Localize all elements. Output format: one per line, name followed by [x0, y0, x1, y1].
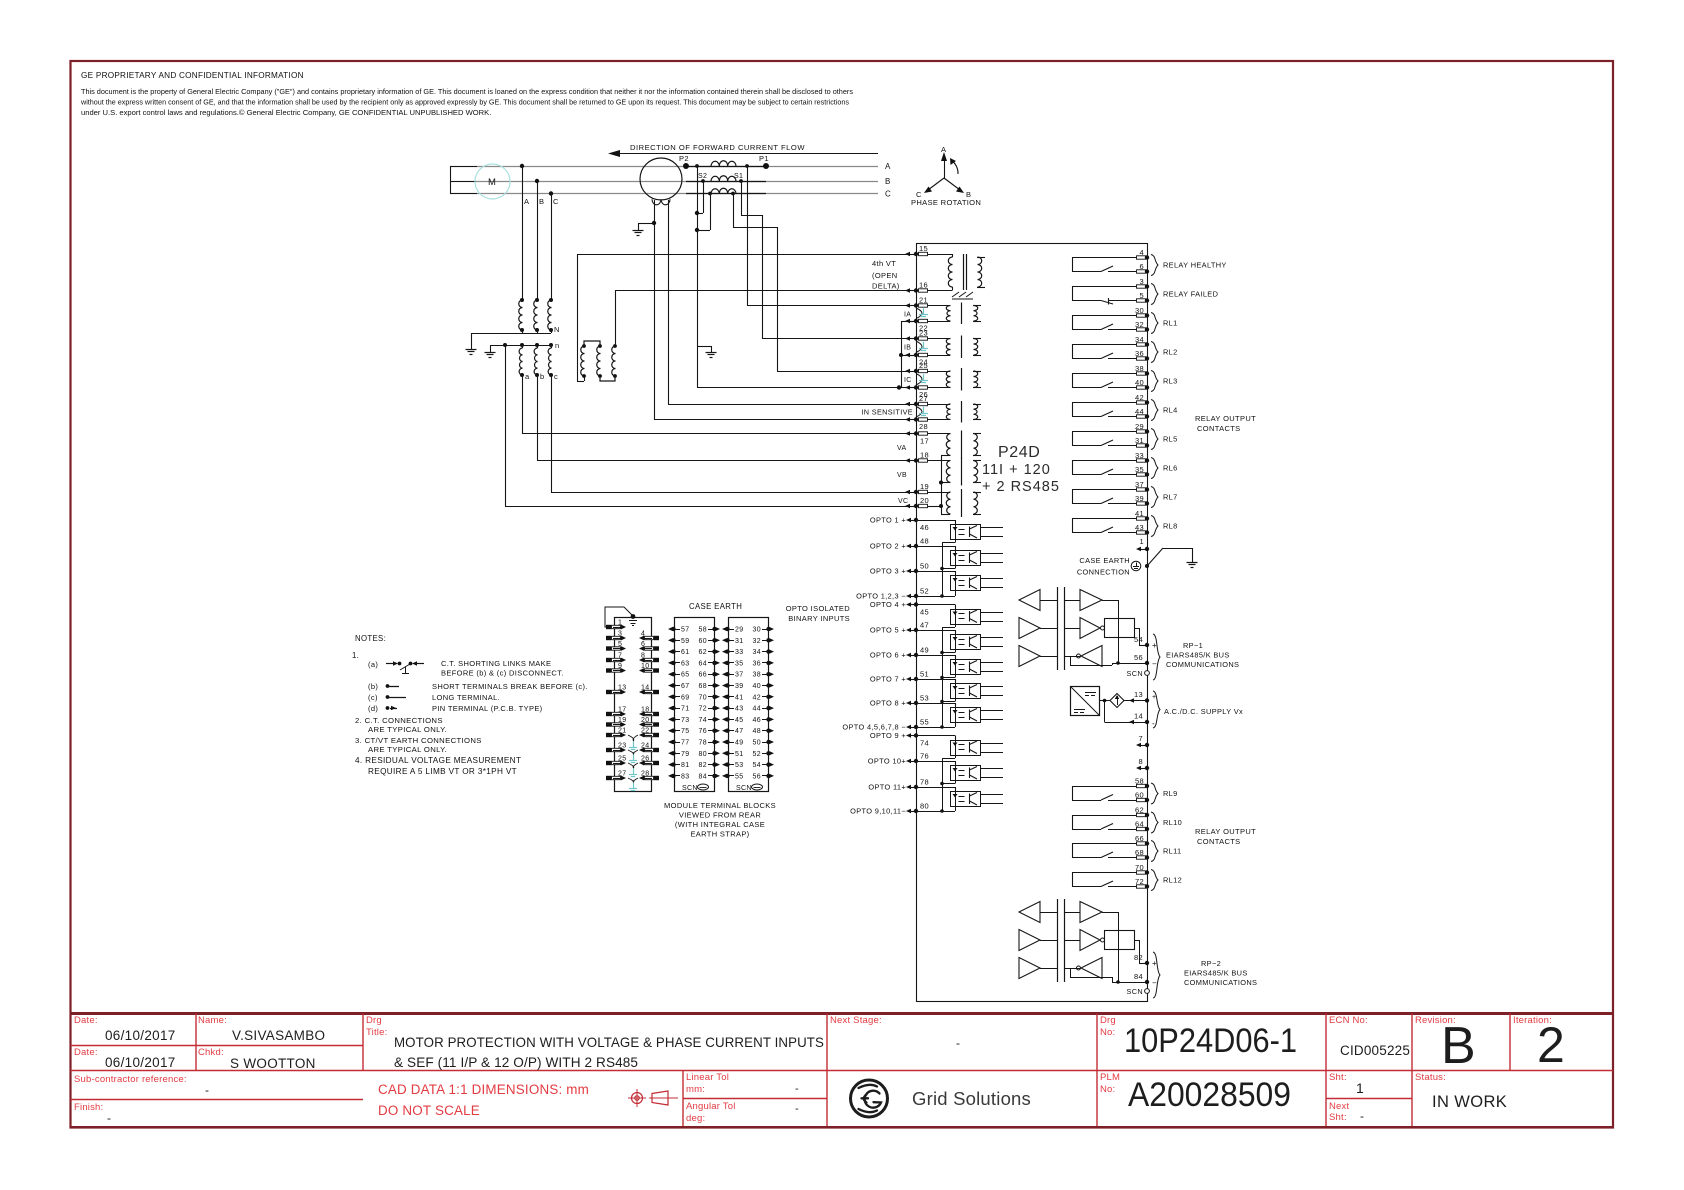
svg-text:M: M [488, 177, 496, 188]
opto input terminal 46 OPTO 1 + [870, 516, 929, 533]
svg-text:8: 8 [1138, 757, 1143, 766]
svg-text:Next Stage:: Next Stage: [830, 1015, 882, 1026]
svg-text:72: 72 [699, 706, 708, 713]
svg-text:OPTO 4 +: OPTO 4 + [870, 600, 906, 609]
svg-text:RELAY OUTPUT: RELAY OUTPUT [1195, 827, 1256, 836]
svg-text:31: 31 [735, 638, 744, 645]
module terminal block 3 (29-56) [722, 618, 774, 793]
svg-text:VIEWED FROM REAR: VIEWED FROM REAR [679, 811, 762, 820]
svg-text:a: a [525, 372, 530, 381]
svg-text:(a): (a) [368, 660, 378, 669]
svg-text:13: 13 [1134, 690, 1143, 699]
relay model text [982, 444, 1060, 495]
opto input terminal 49 OPTO 6 + [870, 646, 929, 660]
svg-text:SHORT TERMINALS BREAK BEFORE (: SHORT TERMINALS BREAK BEFORE (c). [432, 682, 588, 691]
svg-text:(WITH INTEGRAL CASE: (WITH INTEGRAL CASE [675, 820, 765, 829]
svg-text:DIRECTION OF FORWARD CURREN: DIRECTION OF FORWARD CURRENT FLOW [630, 143, 805, 152]
svg-text:ARE TYPICAL ONLY.: ARE TYPICAL ONLY. [368, 725, 447, 734]
svg-text:23: 23 [618, 743, 627, 750]
svg-text:P1: P1 [759, 154, 769, 163]
svg-text:40: 40 [1135, 378, 1144, 387]
svg-text:RL11: RL11 [1163, 847, 1182, 856]
svg-text:47: 47 [735, 728, 744, 735]
svg-text:62: 62 [699, 649, 708, 656]
svg-text:83: 83 [681, 773, 690, 780]
svg-text:53: 53 [735, 762, 744, 769]
svg-text:-: - [107, 1111, 111, 1125]
svg-text:51: 51 [920, 670, 929, 679]
svg-text:BEFORE (b) & (c) DISCONNECT.: BEFORE (b) & (c) DISCONNECT. [441, 669, 564, 678]
svg-text:84: 84 [699, 773, 708, 780]
svg-text:C: C [553, 197, 559, 206]
svg-text:OPTO 10+: OPTO 10+ [868, 757, 906, 766]
svg-text:43: 43 [735, 706, 744, 713]
svg-text:& SEF (11 I/P & 12 O/P) WITH 2: & SEF (11 I/P & 12 O/P) WITH 2 RS485 [394, 1055, 638, 1070]
svg-text:Date:: Date: [74, 1015, 98, 1026]
svg-text:Title:: Title: [366, 1027, 387, 1038]
svg-text:69: 69 [681, 694, 690, 701]
svg-text:10P24D06-1: 10P24D06-1 [1124, 1022, 1297, 1060]
opto input terminal 74 OPTO 9 + [870, 731, 929, 748]
svg-text:49: 49 [735, 740, 744, 747]
opto isolator group 2 [916, 605, 1003, 729]
opto input terminal 80 OPTO 9,10,11− [850, 802, 929, 816]
svg-text:−: − [1152, 979, 1157, 988]
svg-text:This document is the property: This document is the property of General… [81, 87, 853, 96]
relay output contacts label upper [1195, 414, 1256, 433]
relay contact RL9 terminals 58 60 [1072, 777, 1158, 805]
svg-text:SCN: SCN [1127, 987, 1143, 996]
svg-text:OPTO 3 +: OPTO 3 + [870, 567, 906, 576]
svg-text:06/10/2017: 06/10/2017 [105, 1055, 176, 1070]
svg-text:17: 17 [920, 437, 929, 446]
CT input IB terminals 23 24 [904, 329, 981, 367]
svg-text:39: 39 [1135, 494, 1144, 503]
svg-text:GE PROPRIETARY AND CONFIDENTIA: GE PROPRIETARY AND CONFIDENTIAL INFORMAT… [81, 71, 304, 80]
svg-text:13: 13 [618, 685, 627, 692]
svg-text:56: 56 [753, 773, 762, 780]
svg-text:61: 61 [681, 649, 690, 656]
svg-text:27: 27 [618, 771, 627, 778]
svg-text:RL9: RL9 [1163, 789, 1178, 798]
svg-text:52: 52 [920, 587, 929, 596]
svg-text:B: B [885, 177, 891, 186]
svg-text:OPTO 11+: OPTO 11+ [868, 783, 906, 792]
svg-text:24: 24 [641, 743, 650, 750]
svg-text:PLM: PLM [1100, 1072, 1120, 1083]
svg-text:41: 41 [1135, 509, 1144, 518]
svg-text:51: 51 [735, 751, 744, 758]
VT primary wye windings [466, 298, 560, 355]
svg-text:72: 72 [1135, 877, 1144, 886]
svg-text:29: 29 [735, 627, 744, 634]
svg-text:54: 54 [1134, 635, 1143, 644]
module terminal blocks caption [664, 801, 776, 839]
relay contact RL5 terminals 29 31 [1072, 422, 1158, 450]
svg-text:18: 18 [920, 451, 929, 460]
svg-text:Sub-contractor reference:: Sub-contractor reference: [74, 1074, 187, 1085]
svg-text:28: 28 [919, 422, 928, 431]
svg-text:Grid Solutions: Grid Solutions [912, 1088, 1031, 1109]
svg-text:(OPEN: (OPEN [872, 271, 898, 280]
svg-text:VA: VA [897, 445, 907, 452]
svg-text:CONNECTION: CONNECTION [1077, 568, 1130, 577]
svg-text:46: 46 [753, 717, 762, 724]
svg-text:27: 27 [919, 394, 928, 403]
svg-text:IN WORK: IN WORK [1432, 1093, 1507, 1111]
svg-text:REQUIRE A 5 LIMB VT OR 3: REQUIRE A 5 LIMB VT OR 3*1PH VT [368, 767, 517, 776]
svg-text:64: 64 [1135, 820, 1144, 829]
VT secondary wye windings a b c n [485, 341, 560, 381]
module terminal blocks heading CASE EARTH [689, 602, 742, 611]
svg-text:1: 1 [1356, 1080, 1364, 1096]
svg-text:OPTO 6 +: OPTO 6 + [870, 651, 906, 660]
title block grid [71, 1014, 1614, 1128]
svg-text:38: 38 [1135, 364, 1144, 373]
svg-text:42: 42 [753, 694, 762, 701]
svg-text:84: 84 [1134, 972, 1143, 981]
svg-text:RL1: RL1 [1163, 319, 1178, 328]
svg-text:DELTA): DELTA) [872, 282, 900, 291]
svg-text:49: 49 [920, 646, 929, 655]
svg-text:P2: P2 [679, 154, 689, 163]
svg-text:42: 42 [1135, 393, 1144, 402]
motor M [450, 164, 510, 199]
svg-text:BINARY INPUTS: BINARY INPUTS [788, 614, 850, 623]
VT secondary wires to relay terminals 17-20 [505, 345, 916, 507]
svg-text:55: 55 [920, 718, 929, 727]
svg-text:9: 9 [618, 663, 622, 670]
svg-text:19: 19 [618, 717, 627, 724]
svg-text:64: 64 [699, 660, 708, 667]
relay contact RELAY FAILED terminals 3 5 [1072, 277, 1158, 305]
svg-text:67: 67 [681, 683, 690, 690]
svg-text:OPTO 9,10,11−: OPTO 9,10,11− [850, 807, 906, 816]
svg-text:21: 21 [919, 296, 928, 305]
svg-text:B: B [1441, 1017, 1476, 1075]
svg-text:74: 74 [920, 739, 929, 748]
svg-text:B: B [539, 197, 544, 206]
svg-text:(d): (d) [368, 704, 378, 713]
CT return bus 22 24 26 [899, 321, 916, 388]
svg-text:55: 55 [735, 773, 744, 780]
svg-text:79: 79 [681, 751, 690, 758]
svg-text:16: 16 [919, 281, 928, 290]
svg-text:29: 29 [1135, 422, 1144, 431]
svg-text:RL10: RL10 [1163, 818, 1182, 827]
svg-text:50: 50 [753, 740, 762, 747]
direction of forward current flow arrow [608, 143, 878, 157]
svg-text:1: 1 [1139, 537, 1144, 546]
svg-text:EIARS485/K BUS: EIARS485/K BUS [1166, 651, 1230, 660]
open delta 4th VT windings [577, 254, 617, 382]
svg-text:NOTES:: NOTES: [355, 634, 386, 643]
VT input transformers VA VB VC terminals 17-20 [897, 431, 981, 518]
svg-text:36: 36 [753, 660, 762, 667]
svg-text:78: 78 [920, 778, 929, 787]
svg-text:IC: IC [904, 377, 912, 384]
svg-text:S2: S2 [698, 173, 707, 180]
4th VT input transformer terminals 15 16 [872, 244, 985, 299]
svg-text:(c): (c) [368, 693, 378, 702]
opto input terminal 48 OPTO 2 + [870, 537, 929, 551]
svg-text:Chkd:: Chkd: [198, 1047, 224, 1058]
svg-text:Finish:: Finish: [74, 1102, 103, 1113]
svg-text:RL2: RL2 [1163, 348, 1178, 357]
svg-text:OPTO 2 +: OPTO 2 + [870, 542, 906, 551]
svg-text:33: 33 [735, 649, 744, 656]
spare terminals 7 8 [1136, 734, 1149, 770]
svg-text:50: 50 [920, 562, 929, 571]
svg-text:74: 74 [699, 717, 708, 724]
opto isolator group 1 [916, 520, 1003, 598]
phase tap junctions to VTs [520, 164, 559, 300]
svg-text:20: 20 [920, 496, 929, 505]
svg-text:EARTH STRAP): EARTH STRAP) [690, 830, 749, 839]
svg-text:LONG TERMINAL.: LONG TERMINAL. [432, 693, 500, 702]
note symbols [386, 661, 424, 710]
svg-text:73: 73 [681, 717, 690, 724]
svg-text:PHASE ROTATION: PHASE ROTATION [911, 198, 981, 207]
svg-text:DO NOT SCALE: DO NOT SCALE [378, 1103, 480, 1118]
svg-text:25: 25 [919, 361, 928, 370]
svg-text:36: 36 [1135, 349, 1144, 358]
svg-text:39: 39 [735, 683, 744, 690]
svg-text:66: 66 [1135, 834, 1144, 843]
svg-text:14: 14 [641, 685, 650, 692]
svg-text:4: 4 [1139, 248, 1144, 257]
proprietary notice text [80, 71, 853, 117]
svg-text:under U.S. export control laws: under U.S. export control laws and regul… [81, 108, 491, 117]
svg-text:Status:: Status: [1415, 1072, 1446, 1083]
svg-text:28: 28 [641, 771, 650, 778]
svg-text:20: 20 [641, 717, 650, 724]
svg-text:77: 77 [681, 740, 690, 747]
AC/DC power supply terminals 13 14 [1071, 687, 1244, 729]
svg-text:82: 82 [1134, 953, 1143, 962]
svg-text:Drg: Drg [1100, 1015, 1116, 1026]
svg-text:+ 2 RS485: + 2 RS485 [982, 479, 1060, 495]
relay case outline P24D [917, 244, 1148, 1002]
svg-text:CID005225: CID005225 [1340, 1043, 1410, 1058]
svg-text:58: 58 [1135, 777, 1144, 786]
svg-text:46: 46 [920, 523, 929, 532]
svg-text:n: n [555, 341, 560, 350]
svg-text:OPTO 1 +: OPTO 1 + [870, 516, 906, 525]
svg-text:CASE EARTH: CASE EARTH [689, 602, 742, 611]
relay contact RL6 terminals 33 35 [1072, 451, 1158, 479]
svg-text:25: 25 [618, 756, 627, 763]
svg-text:deg:: deg: [686, 1113, 705, 1124]
svg-text:48: 48 [920, 537, 929, 546]
svg-text:(b): (b) [368, 682, 378, 691]
svg-text:2: 2 [1537, 1017, 1565, 1073]
svg-text:06/10/2017: 06/10/2017 [105, 1028, 176, 1043]
svg-text:1.: 1. [352, 651, 359, 660]
RP-1 RS485 communications port [1019, 587, 1160, 680]
notes text [352, 634, 588, 776]
svg-text:RP−2: RP−2 [1201, 959, 1221, 968]
svg-text:S1: S1 [734, 173, 743, 180]
svg-text:SCN: SCN [1127, 669, 1143, 678]
svg-text:32: 32 [1135, 320, 1144, 329]
svg-text:−: − [1152, 660, 1157, 669]
svg-text:75: 75 [681, 728, 690, 735]
svg-text:43: 43 [1135, 523, 1144, 532]
svg-text:Drg: Drg [366, 1015, 382, 1026]
svg-text:45: 45 [735, 717, 744, 724]
opto input terminal 50 OPTO 3 + [870, 562, 929, 576]
svg-text:RL6: RL6 [1163, 464, 1178, 473]
svg-text:62: 62 [1135, 806, 1144, 815]
svg-text:58: 58 [699, 627, 708, 634]
svg-text:32: 32 [753, 638, 762, 645]
svg-text:11I + 120: 11I + 120 [982, 462, 1051, 478]
svg-text:OPTO ISOLATED: OPTO ISOLATED [786, 604, 851, 613]
svg-text:CONTACTS: CONTACTS [1197, 424, 1241, 433]
svg-text:70: 70 [1135, 863, 1144, 872]
svg-text:No:: No: [1100, 1084, 1115, 1095]
projection symbol [628, 1089, 678, 1107]
svg-text:37: 37 [735, 672, 744, 679]
svg-text:60: 60 [1135, 791, 1144, 800]
svg-text:VC: VC [898, 498, 908, 505]
relay contact RL1 terminals 30 32 [1072, 306, 1158, 334]
svg-text:N: N [554, 325, 560, 334]
svg-text:P24D: P24D [998, 444, 1040, 461]
svg-text:-: - [956, 1036, 960, 1050]
svg-text:5: 5 [1139, 291, 1144, 300]
relay contact RL11 terminals 66 68 [1072, 834, 1158, 862]
relay output contacts label lower [1195, 827, 1256, 846]
svg-text:RELAY FAILED: RELAY FAILED [1163, 290, 1218, 299]
svg-text:COMMUNICATIONS: COMMUNICATIONS [1166, 660, 1239, 669]
svg-text:4th VT: 4th VT [872, 259, 896, 268]
svg-text:6: 6 [1139, 262, 1144, 271]
svg-text:IB: IB [904, 345, 911, 352]
svg-text:1: 1 [618, 620, 622, 627]
svg-text:Sht:: Sht: [1329, 1072, 1347, 1083]
svg-text:ECN No:: ECN No: [1329, 1015, 1368, 1026]
svg-text:OPTO 5 +: OPTO 5 + [870, 626, 906, 635]
RP-2 RS485 communications port [1019, 899, 1160, 998]
opto isolator group 3 [916, 736, 1003, 813]
svg-text:-: - [205, 1083, 209, 1097]
opto input terminal 47 OPTO 5 + [870, 621, 929, 635]
svg-text:3. CT/VT EARTH CONNECTIONS: 3. CT/VT EARTH CONNECTIONS [355, 736, 482, 745]
relay contact RL3 terminals 38 40 [1072, 364, 1158, 392]
svg-text:7: 7 [1138, 734, 1143, 743]
svg-text:53: 53 [920, 694, 929, 703]
svg-text:-: - [795, 1103, 799, 1115]
svg-text:40: 40 [753, 683, 762, 690]
svg-text:80: 80 [699, 751, 708, 758]
title block texts [74, 1015, 1565, 1125]
svg-text:V.SIVASAMBO: V.SIVASAMBO [232, 1028, 325, 1043]
svg-text:60: 60 [699, 638, 708, 645]
opto input terminal 53 OPTO 8 + [870, 694, 929, 708]
svg-text:A.C./D.C. SUPPLY Vx: A.C./D.C. SUPPLY Vx [1164, 707, 1243, 716]
svg-text:COMMUNICATIONS: COMMUNICATIONS [1184, 978, 1257, 987]
svg-text:C: C [885, 190, 891, 199]
svg-text:68: 68 [1135, 848, 1144, 857]
svg-text:80: 80 [920, 802, 929, 811]
svg-text:CASE EARTH: CASE EARTH [1079, 556, 1130, 565]
svg-text:5: 5 [618, 641, 622, 648]
opto input terminal 51 OPTO 7 + [870, 670, 929, 684]
svg-text:37: 37 [1135, 480, 1144, 489]
svg-text:Date:: Date: [74, 1047, 98, 1058]
svg-text:Next: Next [1329, 1101, 1349, 1112]
svg-text:3: 3 [618, 631, 622, 638]
svg-text:PIN TERMINAL (P.C.B. TYPE): PIN TERMINAL (P.C.B. TYPE) [432, 704, 543, 713]
svg-text:7: 7 [618, 653, 622, 660]
svg-text:10: 10 [641, 663, 650, 670]
phase rotation symbol [911, 145, 981, 207]
svg-text:Linear Tol: Linear Tol [686, 1072, 729, 1083]
svg-text:IA: IA [904, 312, 911, 319]
svg-text:68: 68 [699, 683, 708, 690]
svg-text:without the express written co: without the express written consent of G… [80, 98, 849, 107]
relay contact RL8 terminals 41 43 [1072, 509, 1158, 537]
svg-text:mm:: mm: [686, 1084, 705, 1095]
svg-text:23: 23 [919, 329, 928, 338]
svg-text:44: 44 [1135, 407, 1144, 416]
svg-text:A: A [885, 162, 891, 171]
svg-text:57: 57 [681, 627, 690, 634]
svg-text:22: 22 [641, 728, 650, 735]
svg-text:76: 76 [920, 752, 929, 761]
svg-text:A20028509: A20028509 [1128, 1076, 1291, 1114]
svg-text:IN SENSITIVE: IN SENSITIVE [861, 408, 913, 417]
svg-text:RL4: RL4 [1163, 406, 1178, 415]
svg-text:VB: VB [897, 472, 907, 479]
svg-text:EIARS485/K BUS: EIARS485/K BUS [1184, 969, 1248, 978]
svg-text:65: 65 [681, 672, 690, 679]
svg-text:4: 4 [641, 631, 645, 638]
svg-text:RELAY HEALTHY: RELAY HEALTHY [1163, 261, 1227, 270]
svg-text:66: 66 [699, 672, 708, 679]
svg-text:76: 76 [699, 728, 708, 735]
svg-text:OPTO 8 +: OPTO 8 + [870, 699, 906, 708]
svg-text:30: 30 [753, 627, 762, 634]
svg-text:31: 31 [1135, 436, 1144, 445]
svg-text:34: 34 [1135, 335, 1144, 344]
svg-text:52: 52 [753, 751, 762, 758]
svg-text:RL12: RL12 [1163, 876, 1182, 885]
svg-text:A: A [524, 197, 529, 206]
svg-text:56: 56 [1134, 653, 1143, 662]
relay contact RL12 terminals 70 72 [1072, 863, 1158, 891]
svg-text:2. C.T. CONNECTIONS: 2. C.T. CONNECTIONS [355, 716, 443, 725]
svg-text:S WOOTTON: S WOOTTON [230, 1056, 316, 1071]
svg-text:RL7: RL7 [1163, 493, 1178, 502]
svg-text:-: - [795, 1083, 799, 1095]
phase CTs with P1 P2 S1 S2 [679, 154, 769, 195]
GE logo [851, 1080, 1032, 1117]
opto input terminal 76 OPTO 10+ [868, 752, 929, 766]
svg-text:RELAY OUTPUT: RELAY OUTPUT [1195, 414, 1256, 423]
opto isolated binary inputs label [786, 604, 851, 623]
wire to terminal 15 [577, 254, 916, 256]
svg-text:-: - [1360, 1109, 1364, 1123]
svg-text:Angular Tol: Angular Tol [686, 1101, 736, 1112]
svg-text:RP−1: RP−1 [1183, 641, 1203, 650]
svg-text:34: 34 [753, 649, 762, 656]
svg-text:14: 14 [1134, 712, 1143, 721]
svg-text:b: b [540, 372, 545, 381]
svg-text:54: 54 [753, 762, 762, 769]
